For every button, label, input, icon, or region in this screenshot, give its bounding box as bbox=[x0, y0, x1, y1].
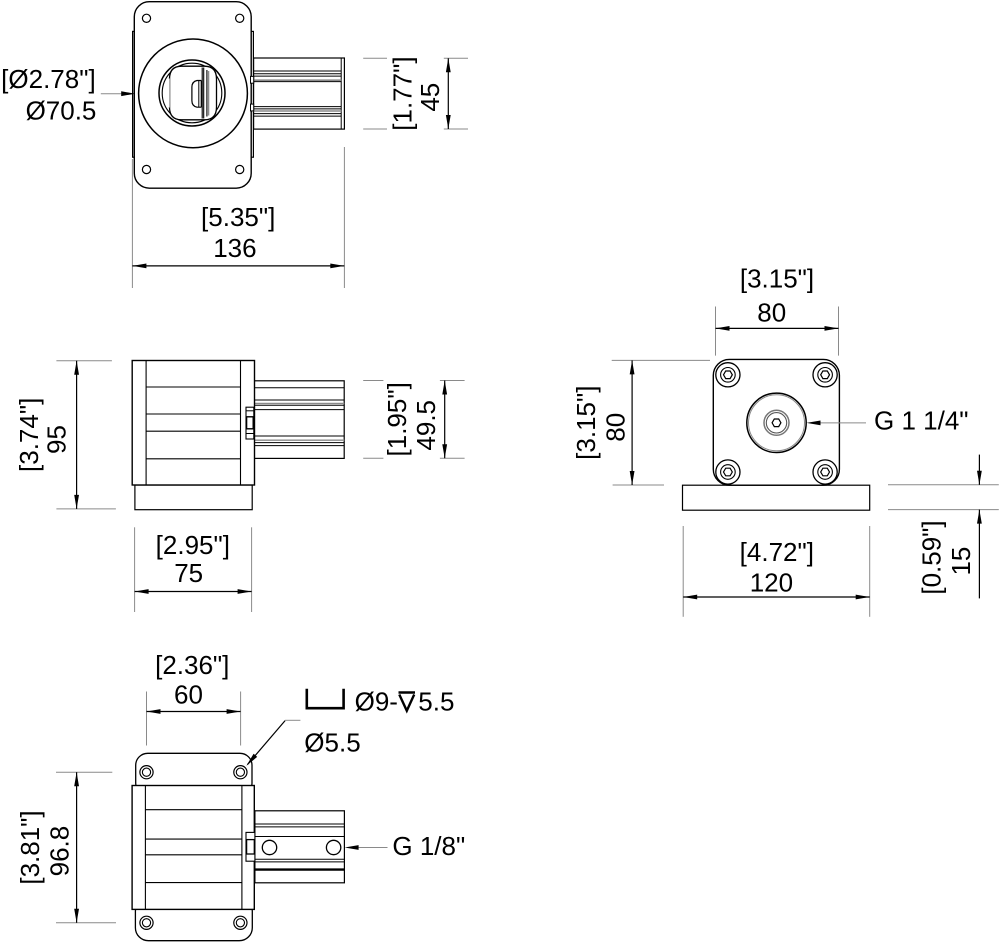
body horizontal lines bbox=[145, 809, 242, 811]
dim 49.5 extension bottom bbox=[363, 457, 383, 459]
bolt hole bottom-left bbox=[142, 165, 150, 173]
svg-text:[0.59"]: [0.59"] bbox=[916, 520, 946, 594]
dim 96.8 extension bottom bbox=[56, 922, 116, 924]
rail body right bbox=[254, 58, 345, 129]
dim 80 top extension right bbox=[838, 307, 840, 356]
dim 45 extension bottom bbox=[363, 128, 387, 130]
svg-text:[3.81"]: [3.81"] bbox=[15, 810, 45, 884]
counterbore leader arrow bbox=[246, 754, 257, 766]
svg-text:45: 45 bbox=[415, 83, 445, 112]
dim 80 left line bbox=[631, 360, 633, 485]
base foot bbox=[135, 485, 252, 510]
dim 75 arrow left bbox=[135, 589, 149, 594]
center port hex bbox=[772, 419, 781, 427]
rail ports bbox=[262, 840, 276, 854]
svg-text:[2.95"]: [2.95"] bbox=[156, 530, 230, 560]
dim 96.8 arrow bottom bbox=[74, 909, 79, 923]
handle tab bbox=[192, 81, 201, 108]
dim 80 left extension top bbox=[612, 359, 710, 361]
dim 45 arrow bottom bbox=[446, 115, 451, 129]
hole bottom-right bbox=[234, 916, 247, 929]
dim 45 extension top bbox=[363, 57, 387, 59]
dim 120 arrow left bbox=[683, 595, 697, 600]
VIEW 1 : front view (top-left) bbox=[1, 2, 468, 288]
counterbore symbol bbox=[307, 689, 344, 708]
port circle outer bbox=[159, 60, 225, 126]
dim 49.5 extension top bbox=[363, 380, 383, 382]
bolt hole BR bbox=[813, 460, 837, 484]
svg-text:96.8: 96.8 bbox=[44, 826, 74, 877]
VIEW 3 : flange end view (right) bbox=[571, 264, 999, 617]
bottom plate bbox=[135, 898, 252, 941]
base plate bbox=[683, 485, 870, 510]
dim 80 top arrow right bbox=[825, 326, 839, 331]
dim 60 extension right bbox=[240, 692, 242, 746]
body inner vertical right bbox=[240, 361, 242, 486]
dim 75 line bbox=[135, 591, 252, 593]
clamp tab upper bbox=[251, 76, 254, 83]
dim 80 left arrow bottom bbox=[630, 471, 635, 485]
dim 15 extension top bbox=[888, 484, 999, 486]
bolt hole BL bbox=[716, 460, 740, 484]
dim 96.8 extension top bbox=[56, 771, 112, 773]
bolt hole TL bbox=[716, 363, 740, 387]
clamp piece bbox=[246, 407, 254, 439]
svg-text:[3.15"]: [3.15"] bbox=[571, 386, 601, 460]
svg-text:[1.95"]: [1.95"] bbox=[382, 382, 412, 456]
svg-text:80: 80 bbox=[757, 298, 786, 328]
dim 49.5 line bbox=[444, 381, 446, 459]
svg-text:Ø70.5: Ø70.5 bbox=[26, 96, 97, 126]
ball slot lines bbox=[201, 68, 203, 119]
svg-text:15: 15 bbox=[946, 547, 976, 576]
main body bbox=[132, 786, 254, 910]
dim 80 top line bbox=[716, 327, 839, 329]
svg-text:G 1 1/4": G 1 1/4" bbox=[874, 406, 969, 436]
dim 136 extension left bbox=[131, 159, 133, 288]
dim 136 line bbox=[132, 265, 344, 267]
svg-text:Ø9-: Ø9- bbox=[355, 687, 398, 717]
svg-text:95: 95 bbox=[41, 425, 71, 454]
main body bbox=[132, 361, 254, 486]
dim 80 top extension left bbox=[715, 307, 717, 356]
svg-text:[4.72"]: [4.72"] bbox=[740, 537, 814, 567]
dim 60 line bbox=[147, 711, 241, 713]
hole top-left bbox=[140, 766, 153, 779]
flange square bbox=[713, 359, 839, 485]
body horizontal lines bbox=[146, 386, 240, 388]
dim 80 top arrow left bbox=[716, 326, 730, 331]
ball silhouette bbox=[170, 66, 217, 120]
dim 75 extension right bbox=[251, 527, 253, 612]
body inner vertical left bbox=[145, 361, 147, 486]
svg-text:[3.15"]: [3.15"] bbox=[740, 264, 814, 294]
bolt hole TR bbox=[813, 363, 837, 387]
svg-text:5.5: 5.5 bbox=[418, 687, 454, 717]
dim 120 arrow right bbox=[856, 595, 870, 600]
svg-text:[2.36"]: [2.36"] bbox=[155, 650, 229, 680]
svg-text:[1.77"]: [1.77"] bbox=[388, 56, 418, 130]
dim 95 arrow bottom bbox=[74, 495, 79, 509]
flange circle bbox=[139, 39, 248, 148]
dim 136 arrow right bbox=[330, 264, 344, 269]
dim 15 extension bottom bbox=[888, 509, 999, 511]
dim 45 arrow top bbox=[446, 58, 451, 72]
dim 60 arrow left bbox=[147, 709, 161, 714]
rail profile lines bbox=[254, 70, 342, 72]
dim 75 arrow right bbox=[238, 589, 252, 594]
counterbore leader diagonal bbox=[248, 721, 286, 765]
dim 45 line bbox=[447, 58, 449, 129]
dim 95 extension top bbox=[56, 360, 112, 362]
hole bottom-left bbox=[140, 916, 153, 929]
svg-text:136: 136 bbox=[213, 233, 256, 263]
top plate bbox=[136, 753, 252, 795]
rail bottom view bbox=[255, 811, 345, 883]
svg-text:60: 60 bbox=[174, 680, 203, 710]
dim 96.8 arrow top bbox=[74, 772, 79, 786]
clamp tab lower bbox=[251, 104, 254, 111]
dim 49.5 arrow bottom bbox=[442, 444, 447, 458]
dim 60 extension left bbox=[146, 692, 148, 746]
bolt hole bottom-right bbox=[236, 165, 244, 173]
rail side bbox=[254, 381, 344, 459]
dim 80 left arrow top bbox=[630, 360, 635, 374]
svg-text:[5.35"]: [5.35"] bbox=[201, 202, 275, 232]
dim 95 line bbox=[76, 361, 78, 509]
rail profile lines bbox=[254, 387, 344, 389]
svg-text:G 1/8": G 1/8" bbox=[392, 831, 465, 861]
body inner verticals bbox=[144, 786, 146, 910]
dim 15 arrow upper (down) bbox=[977, 471, 982, 485]
dim 95 arrow top bbox=[74, 361, 79, 375]
dim 49.5 arrow top bbox=[442, 381, 447, 395]
svg-text:49.5: 49.5 bbox=[411, 400, 441, 451]
G 1 1/4 leader line bbox=[820, 422, 866, 424]
dim 96.8 line bbox=[76, 772, 78, 923]
counterbore leader stub bbox=[285, 719, 300, 721]
G 1/8 leader arrow bbox=[345, 845, 359, 850]
dim 15 line upper bbox=[978, 455, 980, 485]
ball bore edge (grey) bbox=[169, 78, 171, 108]
hole top-right bbox=[234, 766, 247, 779]
dim 15 line lower bbox=[978, 510, 980, 599]
leader diameter arrow bbox=[121, 91, 135, 96]
dim 60 arrow right bbox=[227, 709, 241, 714]
VIEW 4 : bottom view (bottom-left) bbox=[15, 650, 465, 941]
bolt hole top-left bbox=[142, 14, 150, 22]
clamp piece bbox=[246, 832, 255, 861]
depth symbol bbox=[399, 691, 416, 693]
VIEW 2 : side view (middle-left) bbox=[14, 361, 465, 613]
svg-text:[3.74"]: [3.74"] bbox=[14, 398, 44, 472]
mounting plate bbox=[134, 2, 251, 189]
svg-text:75: 75 bbox=[174, 558, 203, 588]
dim 80 left extension bottom bbox=[613, 484, 664, 486]
rail profile lines bbox=[255, 823, 345, 825]
bolt hole top-right bbox=[236, 14, 244, 22]
svg-text:[Ø2.78"]: [Ø2.78"] bbox=[1, 64, 96, 94]
G 1 1/4 leader arrow bbox=[807, 421, 821, 426]
G 1/8 leader line bbox=[357, 847, 388, 849]
dim 75 extension left bbox=[134, 527, 136, 612]
dim 136 extension right bbox=[343, 147, 345, 288]
dim 120 extension right bbox=[869, 526, 871, 617]
leader diameter line bbox=[101, 93, 123, 95]
dim 120 line bbox=[683, 596, 870, 598]
svg-text:80: 80 bbox=[601, 413, 631, 442]
svg-text:120: 120 bbox=[750, 568, 793, 598]
rail inner edge line bbox=[340, 58, 342, 129]
center port circles bbox=[747, 393, 806, 452]
body behind plate (slivers) bbox=[133, 31, 254, 157]
dim 15 arrow lower (up) bbox=[977, 510, 982, 524]
dim 120 extension left bbox=[682, 526, 684, 617]
port circle inner bbox=[162, 63, 222, 123]
svg-text:Ø5.5: Ø5.5 bbox=[304, 728, 360, 758]
dim 136 arrow left bbox=[132, 264, 146, 269]
dim 95 extension bottom bbox=[56, 508, 116, 510]
